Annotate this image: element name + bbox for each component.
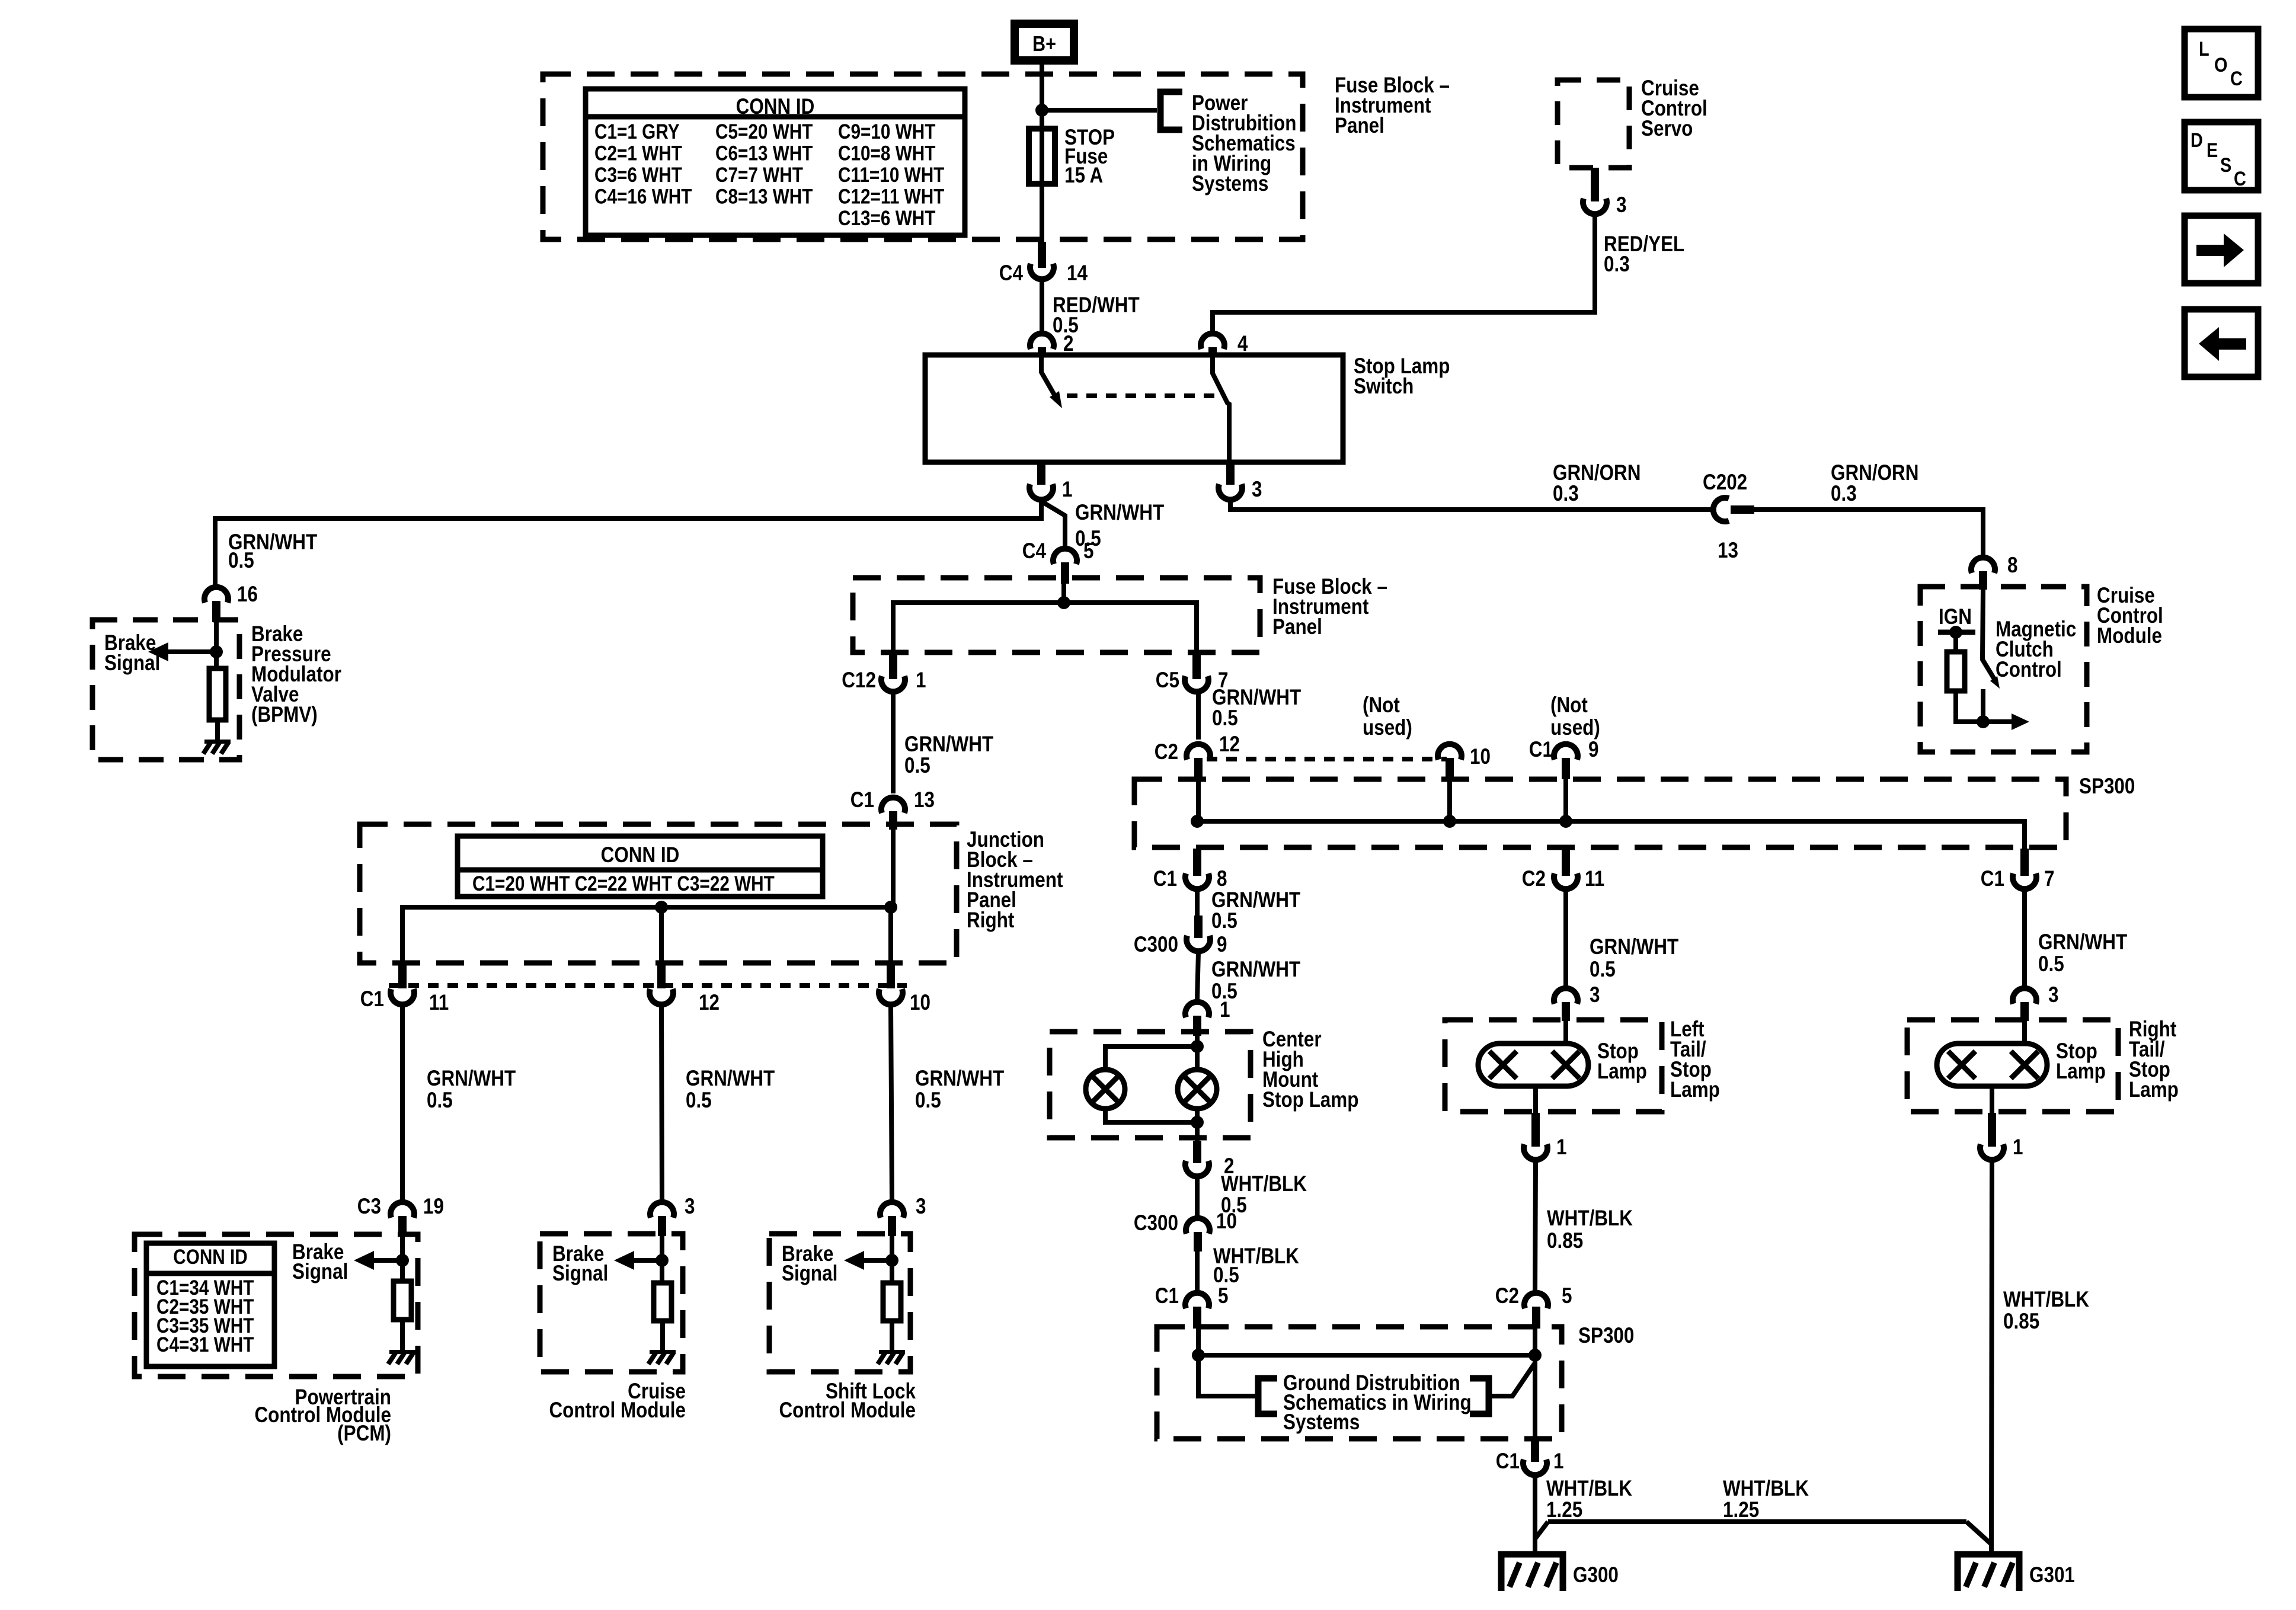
resistor in shift lock module: [883, 1283, 901, 1321]
off-page bracket ground distribution right: [1470, 1378, 1489, 1414]
wire resistor to ground (BPMV): [215, 720, 220, 741]
box Stop Lamp Switch: [925, 355, 1343, 462]
wire resistor down and right to output node: [1956, 691, 2012, 722]
svg-text:5: 5: [1083, 539, 1093, 564]
connector C2 pin 12: [1187, 744, 1210, 760]
off-page bracket power distribution: [1160, 92, 1182, 130]
svg-text:Module: Module: [2097, 624, 2162, 648]
svg-text:0.3: 0.3: [1604, 252, 1630, 277]
svg-text:10: 10: [1216, 1209, 1237, 1234]
connector pin 2 center lamp: [1193, 1141, 1201, 1163]
svg-text:2: 2: [1063, 332, 1073, 356]
wires into SP300 bus: [1196, 779, 1201, 821]
svg-text:S: S: [2220, 153, 2231, 177]
connector C1 pin 13 junction block: [881, 798, 905, 813]
svg-text:GRN/WHT: GRN/WHT: [686, 1067, 775, 1091]
connector C2 pin 11: [1562, 849, 1570, 876]
svg-text:3: 3: [2048, 983, 2058, 1007]
svg-text:Lamp: Lamp: [1597, 1060, 1647, 1084]
in-line connector C202 pin 13: [1713, 498, 1729, 521]
svg-text:C: C: [2234, 167, 2246, 190]
svg-text:Systems: Systems: [1192, 172, 1268, 196]
dashed box SP300 ground splice: [1157, 1327, 1562, 1439]
svg-text:4: 4: [1237, 332, 1248, 356]
switch linkage dashed: [1067, 393, 1222, 398]
svg-text:Signal: Signal: [292, 1260, 348, 1284]
node brake signal junction cruise: [655, 1254, 669, 1267]
bulb right of center lamp: [1178, 1070, 1217, 1109]
svg-text:1: 1: [1220, 998, 1230, 1022]
svg-text:0.3: 0.3: [1553, 482, 1579, 506]
node brake signal junction PCM: [396, 1254, 409, 1267]
svg-text:GRN/WHT: GRN/WHT: [2038, 930, 2127, 955]
svg-text:Control Module: Control Module: [549, 1398, 686, 1423]
svg-text:0.5: 0.5: [228, 549, 254, 573]
fuse STOP Fuse 15 A: [1029, 129, 1055, 184]
wire B+ down to STOP fuse: [1040, 65, 1044, 268]
wire resistor to ground shift lock: [890, 1321, 894, 1351]
connector pin 1 stop lamp switch: [1037, 462, 1045, 485]
svg-text:D: D: [2191, 129, 2203, 152]
svg-text:C2: C2: [1155, 740, 1178, 764]
connector C1 pin 5 ground splice: [1185, 1293, 1209, 1308]
connector C3 pin 19 PCM: [391, 1202, 414, 1218]
svg-text:C5: C5: [1156, 668, 1179, 693]
svg-text:Switch: Switch: [1354, 375, 1414, 399]
dashed box Brake Pressure Modulator Valve: [92, 620, 239, 760]
svg-text:WHT/BLK: WHT/BLK: [1723, 1477, 1809, 1501]
svg-text:Signal: Signal: [782, 1262, 837, 1286]
svg-text:0.85: 0.85: [1547, 1229, 1583, 1253]
svg-text:GRN/WHT: GRN/WHT: [915, 1067, 1004, 1091]
svg-text:SP300: SP300: [2079, 774, 2135, 799]
svg-text:19: 19: [423, 1195, 444, 1219]
svg-text:7: 7: [2044, 867, 2054, 891]
svg-text:O: O: [2214, 53, 2227, 76]
wire pin3 into right lamp: [2022, 1021, 2027, 1044]
connector C1 pin 8: [1193, 849, 1201, 876]
resistor in cruise module: [654, 1283, 671, 1321]
svg-text:1: 1: [1553, 1449, 1563, 1474]
node splice C2-12: [1191, 815, 1204, 828]
wire pin3 into shift lock module: [890, 1236, 894, 1283]
wire C2-5 to ground bus and down to C1-1: [1533, 1329, 1537, 1355]
svg-text:C2=1 WHT: C2=1 WHT: [594, 142, 682, 165]
svg-text:16: 16: [237, 582, 258, 607]
svg-text:C8=13 WHT: C8=13 WHT: [715, 185, 813, 208]
connector pin 12: [657, 963, 666, 988]
node brake signal junction in BPMV: [210, 645, 223, 658]
svg-text:C12=11 WHT: C12=11 WHT: [838, 185, 944, 208]
svg-text:1.25: 1.25: [1546, 1498, 1582, 1522]
in-line connector C300 pin 10: [1186, 1218, 1210, 1234]
svg-text:C1: C1: [1981, 867, 2004, 891]
connector pin 3 shift lock module: [880, 1202, 904, 1218]
svg-text:11: 11: [1585, 867, 1604, 891]
svg-text:IGN: IGN: [1939, 605, 1972, 629]
node output junction cruise module: [1977, 715, 1990, 728]
svg-text:Lamp: Lamp: [1670, 1078, 1720, 1102]
svg-text:CONN ID: CONN ID: [601, 843, 680, 868]
svg-text:0.5: 0.5: [686, 1089, 712, 1113]
splice bus SP300: [1197, 821, 2025, 849]
wire right lamp ground WHT/BLK to G301: [1991, 1161, 1992, 1557]
connector C12 pin 1: [889, 652, 897, 679]
ground symbol cruise module: [650, 1350, 676, 1354]
svg-text:GRN/WHT: GRN/WHT: [1075, 501, 1164, 525]
wire C1-7 to right lamp GRN/WHT: [2022, 890, 2027, 985]
svg-text:Control: Control: [1996, 658, 2062, 682]
svg-text:C1: C1: [850, 788, 874, 812]
svg-text:13: 13: [914, 788, 935, 812]
svg-text:0.5: 0.5: [1211, 909, 1237, 933]
svg-text:C7=7 WHT: C7=7 WHT: [715, 164, 803, 187]
wire from bulbs to lamp output: [1105, 1109, 1197, 1122]
svg-text:9: 9: [1217, 933, 1227, 957]
svg-text:13: 13: [1718, 539, 1738, 563]
svg-text:C202: C202: [1703, 470, 1747, 495]
svg-text:5: 5: [1562, 1284, 1572, 1308]
junction block bus: [402, 907, 891, 963]
svg-text:(PCM): (PCM): [337, 1422, 391, 1446]
connector C1 pin 9 (not used): [1554, 744, 1578, 760]
svg-text:WHT/BLK: WHT/BLK: [1547, 1206, 1633, 1231]
svg-text:10: 10: [1470, 745, 1491, 769]
wire into lamp and internal split: [1195, 1036, 1200, 1070]
svg-text:3: 3: [1252, 478, 1262, 502]
connector pin 3 left tail/stop lamp: [1554, 988, 1578, 1004]
wire RED/YEL from servo to stop lamp switch pin 4: [1213, 215, 1595, 332]
node lamp bottom join: [1191, 1116, 1204, 1129]
svg-text:C3: C3: [357, 1195, 381, 1219]
svg-text:Right: Right: [967, 908, 1015, 933]
svg-text:C4=16 WHT: C4=16 WHT: [594, 185, 692, 208]
magnetic clutch switch blade in cruise module: [1982, 590, 1996, 682]
wire C1-13 to junction bus: [891, 830, 896, 907]
wire C300-10 to C1-5 WHT/BLK: [1195, 1249, 1200, 1292]
wire C1-5 into ground bus: [1196, 1329, 1201, 1355]
svg-text:1: 1: [916, 668, 926, 693]
ground symbol shift lock module: [879, 1350, 905, 1354]
wire inside fuse block splitting to C12-1 and C5-7: [1061, 584, 1066, 603]
svg-text:C1: C1: [1529, 738, 1553, 762]
arrow brake signal PCM: [372, 1258, 402, 1263]
svg-text:GRN/WHT: GRN/WHT: [1211, 958, 1300, 982]
wire from switch pin1 to BPMV (GRN/WHT): [215, 501, 1041, 585]
svg-text:(Not: (Not: [1363, 693, 1400, 718]
svg-text:3: 3: [685, 1195, 695, 1219]
connector C1 pin 7: [2020, 849, 2029, 876]
dashed box Cruise Control Module: [1920, 587, 2087, 752]
node ground bus right: [1528, 1349, 1542, 1362]
dashed box Center High Mount Stop Lamp: [1050, 1032, 1251, 1138]
svg-text:C1: C1: [1496, 1449, 1520, 1474]
nav box arrow right: [2185, 216, 2258, 283]
svg-text:Lamp: Lamp: [2056, 1060, 2106, 1084]
svg-text:GRN/WHT: GRN/WHT: [904, 732, 993, 757]
connector C4 pin 14 of fuse block: [1038, 242, 1046, 268]
svg-text:Control Module: Control Module: [779, 1398, 916, 1423]
wire pin3 into left lamp: [1563, 1021, 1568, 1044]
ground G301: [1958, 1554, 2019, 1591]
svg-text:0.5: 0.5: [427, 1089, 453, 1113]
ground tie wire G300 to G301: [1548, 1519, 1966, 1524]
svg-text:C4=31 WHT: C4=31 WHT: [156, 1333, 254, 1356]
svg-text:11: 11: [429, 991, 449, 1015]
wire C1-8 to C300-9 GRN/WHT: [1195, 890, 1200, 916]
svg-text:Lamp: Lamp: [2129, 1078, 2179, 1102]
connector pin 4 stop lamp switch: [1201, 334, 1224, 349]
wire pin19 into PCM: [400, 1236, 405, 1281]
svg-text:Servo: Servo: [1641, 117, 1693, 141]
svg-text:3: 3: [1590, 983, 1600, 1007]
node splice C1-9: [1559, 815, 1572, 828]
ground symbol PCM: [389, 1350, 415, 1354]
wire C12-1 to junction block C1-13 GRN/WHT: [891, 693, 896, 793]
svg-text:B+: B+: [1032, 33, 1056, 56]
ground G300: [1501, 1554, 1563, 1591]
svg-text:L: L: [2199, 37, 2209, 60]
wire C2-11 to left lamp GRN/WHT: [1563, 890, 1568, 985]
off-page bracket ground distribution left: [1258, 1378, 1277, 1414]
svg-text:used): used): [1363, 716, 1412, 740]
svg-text:WHT/BLK: WHT/BLK: [2003, 1288, 2089, 1312]
wire RED/WHT from fuse block to stop lamp switch: [1040, 280, 1044, 331]
svg-text:WHT/BLK: WHT/BLK: [1546, 1477, 1632, 1501]
connector pin 3 cruise control module (bottom): [650, 1202, 674, 1218]
connector pin 10 (not used): [1438, 744, 1462, 760]
nav box arrow left: [2185, 309, 2258, 377]
svg-text:0.85: 0.85: [2003, 1310, 2039, 1334]
node lamp top split: [1191, 1040, 1204, 1053]
connector pin 3 of cruise control servo: [1591, 168, 1599, 201]
svg-text:0.3: 0.3: [1831, 482, 1857, 506]
wire C5-7 to C2-12 GRN/WHT: [1196, 693, 1201, 740]
wire from switch pin3 to C202 (GRN/ORN): [1230, 502, 1711, 510]
arrow brake signal output (BPMV): [166, 649, 216, 654]
svg-text:1: 1: [1062, 478, 1072, 502]
svg-text:C11=10 WHT: C11=10 WHT: [838, 164, 944, 187]
connector pin 8 cruise control module: [1971, 558, 1995, 573]
svg-text:Signal: Signal: [552, 1262, 608, 1286]
svg-text:C3=6 WHT: C3=6 WHT: [594, 164, 682, 187]
svg-text:E: E: [2207, 139, 2218, 162]
CONN ID table junction block: [458, 836, 823, 897]
svg-text:Signal: Signal: [104, 651, 160, 676]
svg-text:Stop Lamp: Stop Lamp: [1262, 1088, 1358, 1112]
svg-text:0.5: 0.5: [1212, 706, 1238, 731]
dashed box Junction Block - Instrument Panel Right: [360, 824, 957, 963]
wire to left bulb top: [1105, 1046, 1197, 1070]
svg-text:C2: C2: [1495, 1284, 1519, 1308]
connector pin 1 right lamp: [1988, 1113, 1996, 1147]
connector pin 3 stop lamp switch: [1226, 462, 1235, 485]
svg-text:C1: C1: [1155, 1284, 1179, 1308]
svg-text:1: 1: [2013, 1135, 2023, 1160]
connector pin 3 right tail/stop lamp: [2013, 988, 2036, 1004]
switch blade pin4 (closed): [1213, 356, 1229, 462]
connector pin 10 junction: [887, 963, 895, 988]
svg-text:0.5: 0.5: [915, 1089, 941, 1113]
wire bus to ground reference bracket: [1198, 1355, 1256, 1396]
wire from switch pin1 to fuse block C4-5: [1041, 501, 1065, 546]
resistor in BPMV: [209, 668, 226, 720]
svg-text:C1: C1: [360, 987, 384, 1012]
svg-text:C4: C4: [999, 261, 1023, 286]
dashed box Fuse Block - Instrument Panel (top): [543, 74, 1303, 239]
svg-text:8: 8: [1217, 867, 1227, 891]
node junction bus right: [884, 901, 897, 914]
svg-text:C1=1 GRY: C1=1 GRY: [594, 120, 680, 143]
svg-text:(BPMV): (BPMV): [251, 703, 318, 727]
svg-text:C300: C300: [1134, 933, 1178, 957]
node splice 10: [1443, 815, 1456, 828]
dashed box Right Tail/Stop Lamp: [1907, 1020, 2118, 1112]
svg-text:C: C: [2230, 67, 2243, 90]
svg-text:12: 12: [699, 991, 720, 1015]
node brake signal junction shift lock: [885, 1254, 898, 1267]
dotted connector-row line C2-12 to 10: [1207, 757, 1447, 761]
CONN ID table of fuse block: [586, 89, 965, 235]
dashed box Left Tail/Stop Lamp: [1445, 1020, 1662, 1112]
svg-text:15 A: 15 A: [1064, 164, 1103, 188]
connector pin 2 stop lamp switch: [1030, 334, 1054, 349]
svg-text:C12: C12: [842, 668, 876, 693]
connector pin 1 left lamp: [1531, 1113, 1540, 1147]
svg-text:(Not: (Not: [1550, 693, 1588, 718]
power symbol B+ battery feed: [1015, 24, 1074, 60]
svg-text:C300: C300: [1134, 1211, 1178, 1235]
wire 12 to cruise control module GRN/WHT: [661, 1006, 662, 1200]
svg-text:C5=20 WHT: C5=20 WHT: [715, 120, 813, 143]
svg-text:1.25: 1.25: [1723, 1498, 1759, 1522]
wire C300-9 to lamp connector GRN/WHT: [1197, 952, 1198, 999]
connector C2 pin 5 ground splice: [1524, 1293, 1548, 1308]
connector C1 pin 1 ground splice out: [1531, 1441, 1539, 1462]
svg-text:Panel: Panel: [1335, 114, 1384, 138]
svg-text:C1=20 WHT C2=22 WHT C3=22 WH: C1=20 WHT C2=22 WHT C3=22 WHT: [472, 872, 775, 895]
svg-text:9: 9: [1588, 738, 1598, 762]
connector pin 1 center high mount stop lamp: [1185, 1002, 1209, 1017]
node IGN junction: [1949, 626, 1962, 639]
svg-text:WHT/BLK: WHT/BLK: [1221, 1172, 1307, 1196]
connector C5 pin 7: [1192, 652, 1201, 679]
node junction at fuse feed: [1035, 104, 1048, 117]
svg-text:C13=6 WHT: C13=6 WHT: [838, 207, 936, 230]
node ground bus left: [1192, 1349, 1205, 1362]
wire pin3 into cruise module: [660, 1236, 664, 1283]
svg-text:5: 5: [1218, 1284, 1228, 1308]
IGN feed bar: [1938, 630, 1975, 635]
dashed box Powertrain Control Module: [135, 1234, 418, 1377]
dashed box Fuse Block - Instrument Panel (second): [853, 578, 1260, 652]
wire bracket to ground bus: [1489, 1363, 1535, 1396]
svg-text:C9=10 WHT: C9=10 WHT: [838, 120, 936, 143]
svg-text:3: 3: [1616, 193, 1626, 217]
svg-text:Panel: Panel: [1272, 615, 1322, 639]
CONN ID table PCM: [146, 1243, 274, 1366]
svg-text:3: 3: [916, 1195, 926, 1219]
stationary contact of magnetic clutch switch: [1981, 689, 1985, 722]
wire 11 to PCM GRN/WHT: [400, 1006, 405, 1202]
connector C4 pin 5 of fuse block: [1053, 549, 1077, 564]
wire IGN to resistor: [1953, 632, 1958, 652]
svg-text:GRN/WHT: GRN/WHT: [427, 1067, 516, 1091]
svg-text:1: 1: [1556, 1135, 1566, 1160]
svg-text:CONN ID: CONN ID: [173, 1246, 248, 1269]
dashed box Cruise Control Servo: [1558, 80, 1629, 168]
arrow brake signal shift lock: [862, 1258, 892, 1263]
svg-text:GRN/WHT: GRN/WHT: [1590, 935, 1678, 959]
wire 10 to shift lock module GRN/WHT: [891, 1006, 892, 1200]
svg-text:G301: G301: [2029, 1563, 2075, 1587]
svg-text:G300: G300: [1573, 1563, 1619, 1587]
ground splice bus: [1198, 1353, 1535, 1358]
wire pin16 into BPMV: [214, 622, 219, 668]
svg-text:C6=13 WHT: C6=13 WHT: [715, 142, 813, 165]
svg-text:C10=8 WHT: C10=8 WHT: [838, 142, 936, 165]
wire lamp to C300-10 WHT/BLK: [1195, 1177, 1200, 1216]
svg-text:SP300: SP300: [1578, 1324, 1634, 1348]
wire right lamp to connector 1: [1990, 1086, 1994, 1113]
svg-text:8: 8: [2007, 553, 2017, 578]
svg-text:Systems: Systems: [1283, 1410, 1360, 1435]
svg-text:0.5: 0.5: [2038, 952, 2064, 977]
connector C1 pin 11: [398, 963, 407, 988]
wire left lamp ground WHT/BLK to C2-5: [1535, 1161, 1536, 1292]
arrow internal output cruise module: [2012, 713, 2029, 730]
svg-text:10: 10: [910, 991, 930, 1015]
node split inside fuse block: [1057, 596, 1070, 609]
wire C1-1 to G300 WHT/BLK: [1533, 1476, 1537, 1557]
svg-text:C4: C4: [1022, 539, 1046, 564]
svg-text:12: 12: [1219, 732, 1240, 757]
wire branch to power distribution reference: [1042, 108, 1157, 113]
svg-text:0.5: 0.5: [904, 754, 930, 778]
in-line connector C300 pin 9: [1194, 916, 1203, 938]
bulb oval left tail/stop lamp: [1478, 1044, 1588, 1086]
nav box DESC: [2185, 122, 2258, 190]
wire GRN/ORN from C202 to cruise control module: [1753, 510, 1983, 555]
arrow brake signal cruise: [632, 1258, 662, 1263]
nav box LOC: [2185, 29, 2258, 97]
wire left lamp to connector 1: [1533, 1086, 1538, 1113]
connector pin 16 of BPMV: [204, 587, 228, 603]
svg-text:C1: C1: [1153, 867, 1177, 891]
wire resistor to ground PCM: [400, 1320, 405, 1351]
dashed box SP300 splice (upper): [1134, 779, 2066, 847]
bulb left of center lamp: [1086, 1070, 1125, 1109]
switch blade pin2 (open): [1041, 356, 1055, 396]
resistor in PCM: [394, 1281, 411, 1320]
node junction bus middle: [655, 901, 668, 914]
svg-text:used): used): [1550, 716, 1600, 740]
dashed box Cruise Control Module (bottom): [540, 1234, 683, 1372]
wire resistor to ground cruise: [660, 1321, 665, 1351]
ground symbol inside BPMV: [204, 740, 231, 744]
svg-text:0.5: 0.5: [1590, 958, 1616, 982]
svg-text:CONN ID: CONN ID: [736, 95, 815, 119]
resistor in cruise control module: [1947, 652, 1965, 691]
svg-text:14: 14: [1067, 261, 1088, 286]
svg-text:C2: C2: [1522, 867, 1546, 891]
dashed box Shift Lock Control Module: [769, 1234, 910, 1372]
dotted connector-row line junction block: [389, 983, 907, 988]
bulb oval right tail/stop lamp: [1937, 1044, 2047, 1086]
